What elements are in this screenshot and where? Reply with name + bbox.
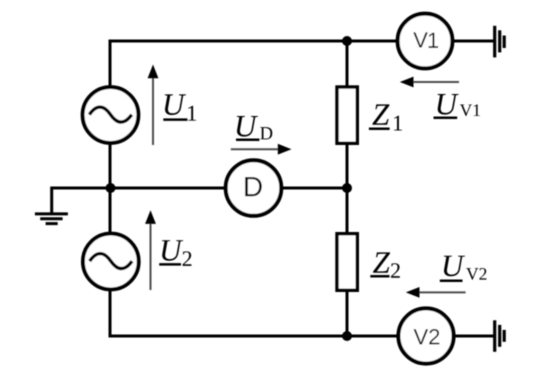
arrow U1 up: [148, 65, 159, 146]
voltmeter V1: [398, 14, 453, 69]
label Z2: [370, 252, 400, 277]
label U1: [163, 94, 196, 120]
wire V1 to ground: [453, 40, 495, 43]
wire right vertical mid-Z2: [346, 186, 349, 233]
wire middle right: [281, 187, 347, 190]
wire ground stub left: [52, 188, 110, 213]
junction node bottom: [342, 331, 352, 341]
label U2: [159, 240, 191, 266]
arrow UD right: [231, 144, 292, 155]
impedance Z1: [337, 87, 357, 143]
wire right vertical top: [346, 40, 349, 88]
wire V2 to ground: [454, 335, 494, 338]
impedance Z2: [337, 234, 357, 291]
detector D: [226, 160, 282, 216]
AC source U1: [83, 87, 139, 143]
wire left vertical top: [109, 40, 112, 88]
junction node middle right: [342, 183, 352, 193]
AC source U2: [83, 234, 139, 290]
ground right bottom: [495, 320, 505, 352]
wire right vertical bottom: [346, 291, 349, 338]
ground right top: [495, 26, 505, 58]
label UD: [236, 116, 272, 140]
wire right vertical Z1-mid: [346, 144, 349, 190]
label Z1: [369, 104, 402, 130]
wire left vertical bottom: [109, 289, 112, 338]
arrow UV1 left: [400, 77, 459, 88]
label UV1: [434, 94, 480, 118]
arrow U2 up: [145, 210, 156, 290]
voltmeter V2: [398, 308, 453, 363]
label UV2: [440, 256, 487, 281]
wire bottom horizontal: [109, 335, 398, 338]
arrow UV2 left: [406, 287, 466, 298]
junction node middle left: [106, 183, 116, 193]
ground left: [35, 214, 68, 224]
wire top horizontal: [109, 40, 398, 43]
wire left vertical below middle: [109, 186, 112, 234]
wire middle left: [110, 187, 226, 190]
junction node top: [342, 36, 352, 46]
wire left vertical mid: [109, 143, 112, 190]
